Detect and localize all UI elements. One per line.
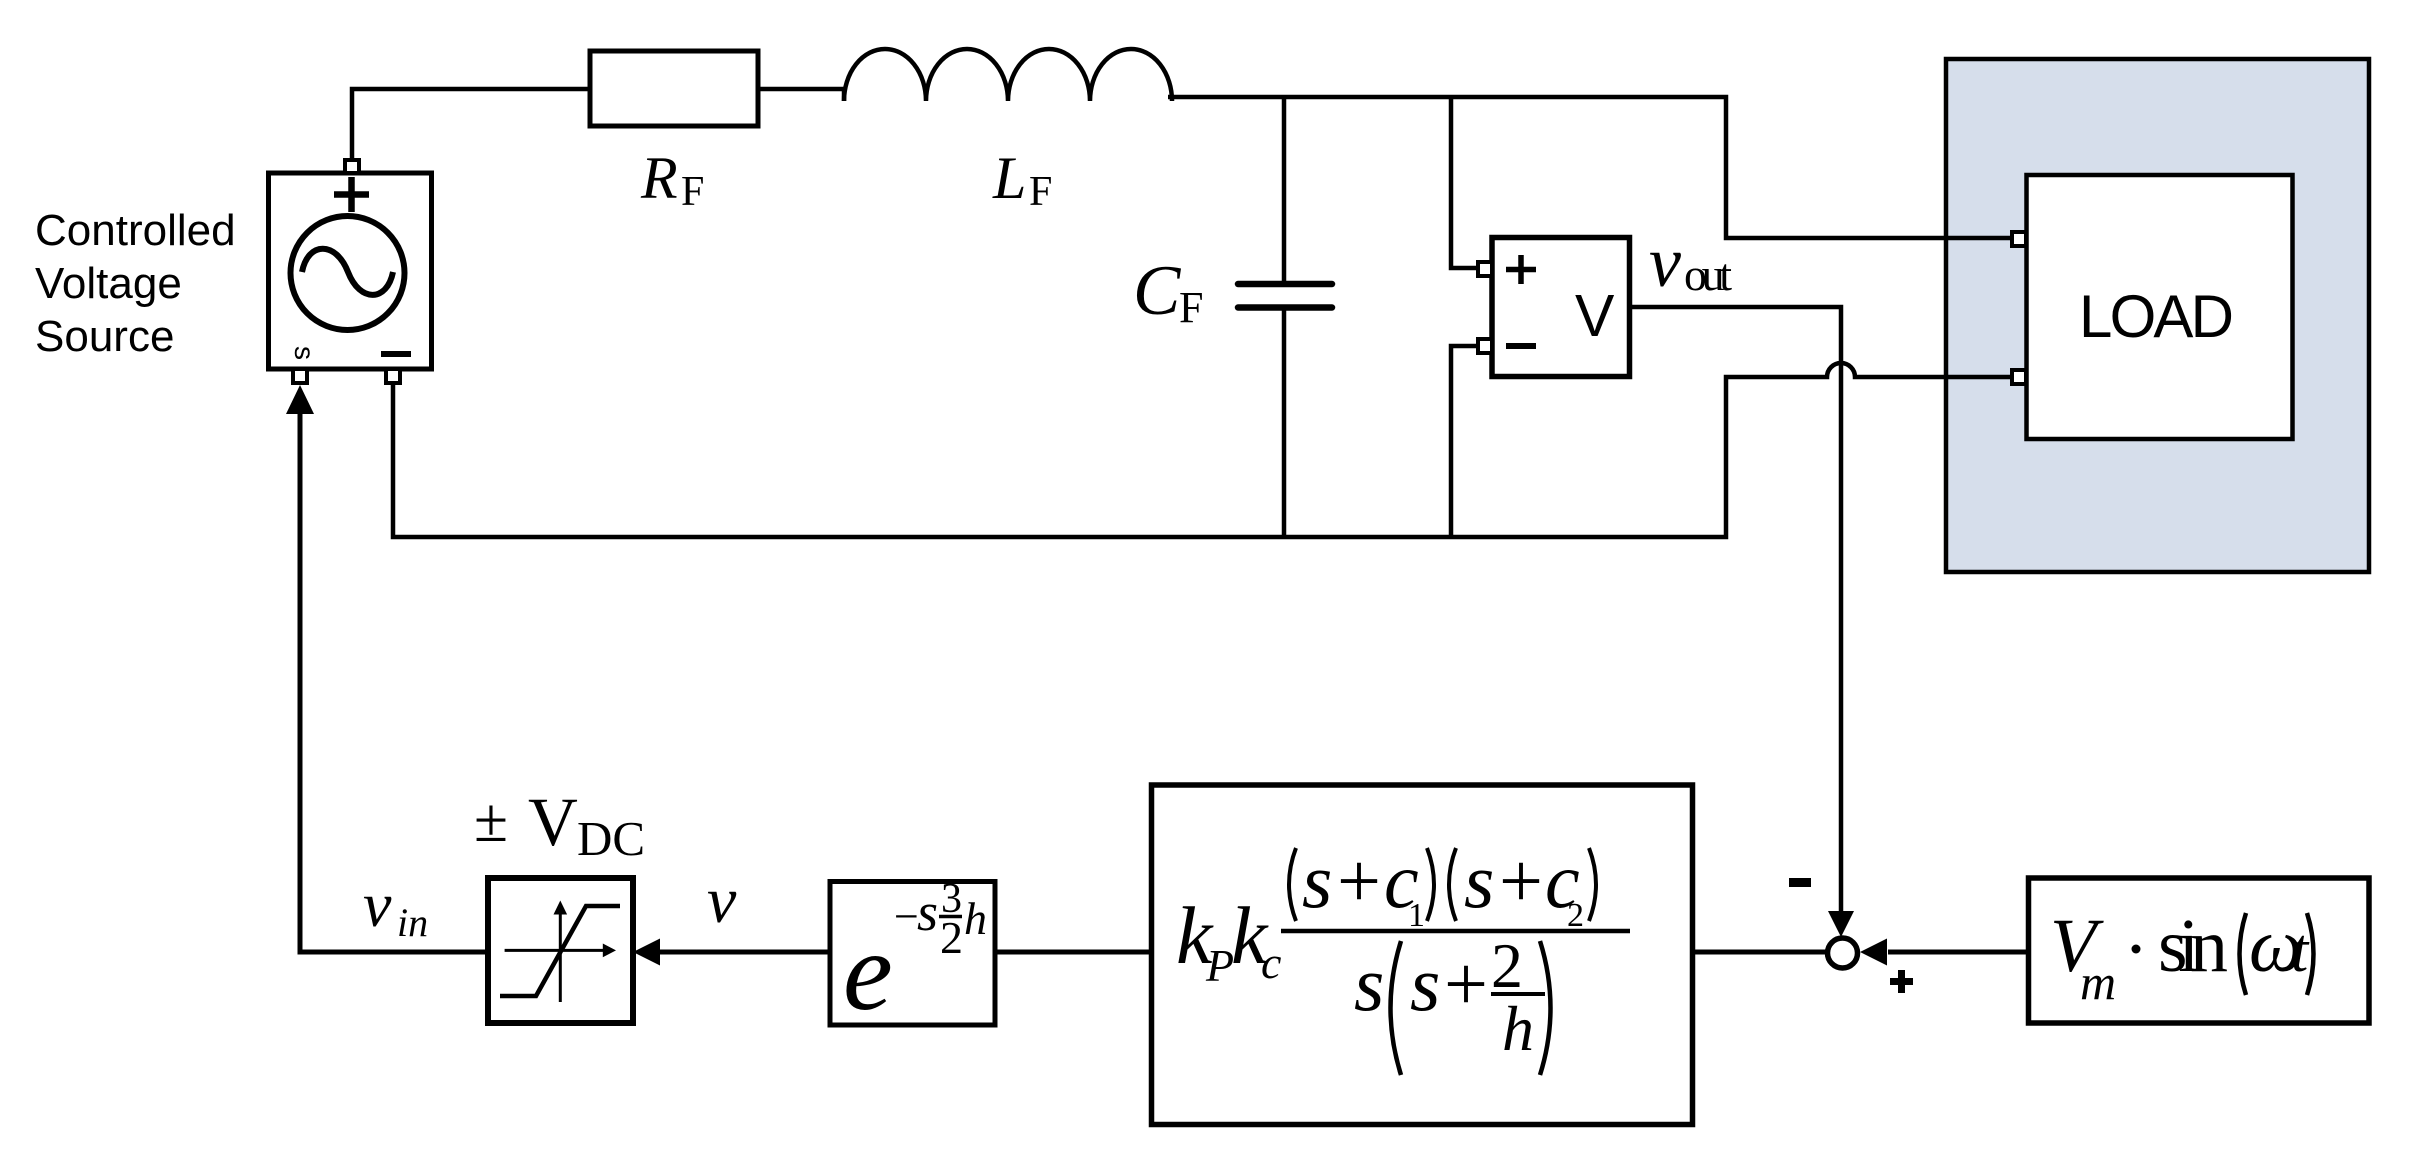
svg-text:out: out (1684, 249, 1732, 300)
svg-text:R: R (640, 145, 678, 211)
svg-text:+: + (1444, 940, 1488, 1027)
svg-text:2: 2 (940, 912, 963, 963)
svg-text:s: s (1302, 837, 1332, 924)
svg-text:t: t (2291, 917, 2310, 985)
svg-text:s: s (289, 346, 320, 360)
svg-text:s: s (1464, 837, 1494, 924)
svg-text:sin: sin (2158, 904, 2228, 988)
svg-text:Source: Source (35, 312, 174, 361)
svg-text:e: e (843, 910, 893, 1034)
svg-text:in: in (397, 900, 428, 945)
svg-text:1: 1 (1408, 897, 1425, 934)
svg-text:Controlled: Controlled (35, 206, 236, 255)
svg-text:v: v (707, 864, 737, 937)
svg-text:−: − (894, 892, 919, 941)
svg-text:F: F (1029, 169, 1052, 215)
svg-text:v: v (363, 869, 392, 940)
svg-text:c: c (1261, 937, 1281, 988)
svg-text:s: s (1354, 940, 1384, 1027)
svg-text:2: 2 (1491, 930, 1523, 1001)
svg-text:+: + (1337, 837, 1381, 924)
svg-text:V: V (1575, 283, 1615, 349)
svg-text:+: + (1499, 837, 1543, 924)
svg-text:P: P (1205, 940, 1234, 991)
svg-text:F: F (681, 169, 704, 215)
svg-text:h: h (964, 893, 987, 944)
svg-text:C: C (1133, 252, 1182, 330)
svg-text:±: ± (474, 787, 508, 855)
svg-text:s: s (1410, 940, 1440, 1027)
svg-text:v: v (1649, 222, 1681, 302)
svg-text:V: V (528, 784, 578, 860)
svg-text:Voltage: Voltage (35, 259, 182, 308)
svg-text:F: F (1179, 283, 1203, 332)
svg-text:s: s (917, 882, 938, 942)
svg-text:2: 2 (1567, 897, 1584, 934)
svg-text:L: L (992, 145, 1026, 211)
svg-text:LOAD: LOAD (2079, 283, 2234, 350)
svg-text:h: h (1502, 993, 1534, 1064)
svg-text:DC: DC (577, 811, 645, 866)
svg-text:m: m (2080, 954, 2116, 1010)
